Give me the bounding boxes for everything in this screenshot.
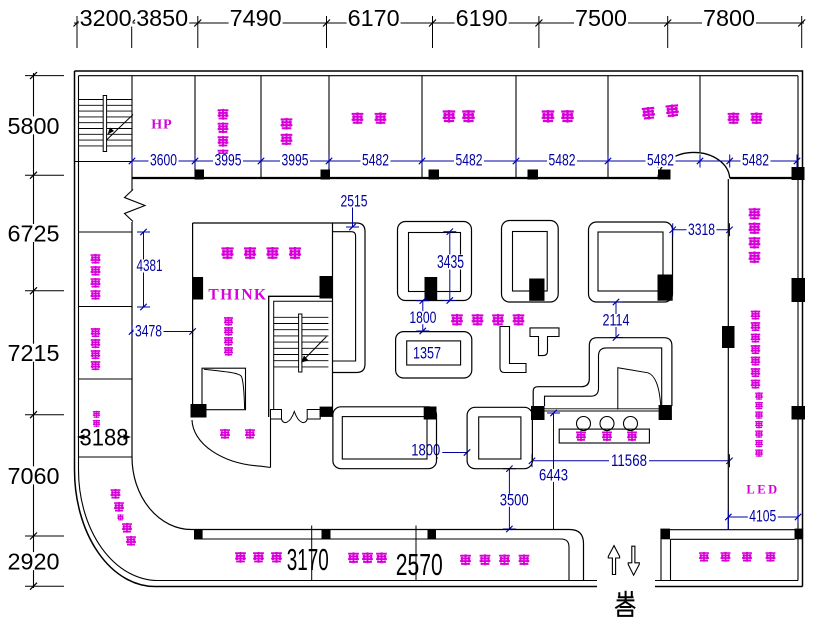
svg-text:LED: LED xyxy=(746,483,779,497)
columns right outer wall xyxy=(792,278,806,420)
dimension 3188 xyxy=(77,425,131,452)
column stepped counter right xyxy=(659,405,672,420)
dimension 3500 xyxy=(498,466,531,533)
stairwell 1 center rail xyxy=(103,96,106,152)
counter C2 xyxy=(502,221,559,303)
lenovo shop top and right band xyxy=(193,223,365,373)
label THINK xyxy=(208,287,267,304)
dimension 4381 xyxy=(136,229,164,310)
shop label BiJiBenPeiJian xyxy=(755,392,763,457)
entrance down arrow xyxy=(628,546,639,575)
svg-text:4381: 4381 xyxy=(137,257,163,275)
exit character Chu xyxy=(617,591,635,601)
svg-text:2920: 2920 xyxy=(8,549,60,575)
counter C1 xyxy=(398,222,472,301)
column lenovo left xyxy=(193,277,204,300)
svg-text:2515: 2515 xyxy=(341,193,368,211)
shop label ShouJiTongXun xyxy=(451,314,524,326)
dimension 1800 row3 xyxy=(409,442,470,460)
bottom shop partitions xyxy=(312,526,416,581)
entrance up arrow xyxy=(608,546,619,575)
svg-text:5482: 5482 xyxy=(549,152,576,170)
svg-text:2114: 2114 xyxy=(603,312,630,330)
dimension 3170 xyxy=(287,542,329,577)
top shops bottom wall xyxy=(132,152,798,178)
shop label FangZheng xyxy=(728,112,763,124)
monitoring shop top band xyxy=(661,530,803,540)
desk symbol cashier xyxy=(618,368,661,410)
right corridor wall xyxy=(727,179,729,529)
svg-text:4105: 4105 xyxy=(749,508,776,526)
counter C3 xyxy=(589,222,673,302)
shop label RuanJian xyxy=(220,429,255,439)
top dimension labels xyxy=(79,5,756,31)
cashier stools xyxy=(577,417,638,431)
column lenovo right xyxy=(320,276,333,299)
svg-text:3995: 3995 xyxy=(215,152,242,170)
svg-text:5482: 5482 xyxy=(647,152,674,170)
svg-text:11568: 11568 xyxy=(611,452,647,470)
counter 1357 xyxy=(396,332,472,378)
dimension 3435 xyxy=(436,229,465,304)
blue dimension labels top shops xyxy=(149,152,771,170)
left corridor wall xyxy=(132,222,192,530)
shop label HuaShuo xyxy=(642,104,680,120)
shop label SheXiangJi xyxy=(348,552,387,563)
stairwell 1 direction arrow xyxy=(107,115,134,141)
svg-text:3435: 3435 xyxy=(437,252,464,272)
cashier counter front lines xyxy=(545,409,659,411)
shop label QingHuaTongFang xyxy=(218,109,229,160)
top dimension ticks xyxy=(74,16,806,48)
columns bottom band xyxy=(194,529,436,540)
shop label JianKongChanPin xyxy=(699,552,775,562)
cashier desk box xyxy=(559,429,649,443)
dimension 2515 xyxy=(338,193,371,231)
column stairwell 2 bottom xyxy=(320,407,333,417)
counter L2 xyxy=(530,328,559,356)
dimension 4105 xyxy=(725,508,801,530)
top dimension line xyxy=(74,22,804,24)
svg-text:7060: 7060 xyxy=(8,463,60,489)
shop label TouYingJi xyxy=(235,552,282,563)
dimension 2570 xyxy=(396,547,443,582)
svg-text:6725: 6725 xyxy=(8,221,60,247)
svg-text:7490: 7490 xyxy=(230,5,282,31)
stairwell 1 treads xyxy=(78,100,132,146)
svg-text:6190: 6190 xyxy=(456,5,508,31)
svg-text:7800: 7800 xyxy=(703,5,755,31)
svg-text:1357: 1357 xyxy=(413,344,441,362)
svg-text:3600: 3600 xyxy=(150,152,177,170)
svg-text:1800: 1800 xyxy=(409,309,436,327)
svg-text:5800: 5800 xyxy=(8,113,60,139)
label ShouYinTai xyxy=(576,431,637,441)
label LED xyxy=(746,483,779,497)
svg-text:2570: 2570 xyxy=(396,547,443,582)
column stepped counter left xyxy=(531,406,545,420)
top shop partitions xyxy=(132,76,700,190)
left strip partitions xyxy=(79,232,133,457)
svg-text:3500: 3500 xyxy=(500,492,529,510)
shop label YingYinYouXi xyxy=(111,489,136,546)
svg-text:7500: 7500 xyxy=(575,5,627,31)
software curved front xyxy=(192,420,271,468)
shop label ShuMaXiangJi xyxy=(460,554,529,565)
dimension 11568 xyxy=(529,452,733,470)
left dimension line xyxy=(33,73,35,588)
svg-text:3318: 3318 xyxy=(688,221,715,239)
stairwell 1 bottom wall xyxy=(75,161,133,163)
dimension 2114 xyxy=(601,299,631,341)
shop label LianXiangJiaYong xyxy=(224,317,233,356)
monitoring shop left wall xyxy=(661,539,671,580)
svg-text:3200: 3200 xyxy=(80,5,132,31)
stairwell 2 treads xyxy=(274,317,329,367)
svg-text:3850: 3850 xyxy=(136,5,188,31)
shop label PingGuo xyxy=(443,110,475,123)
outer wall xyxy=(75,70,803,586)
desk symbol software xyxy=(202,368,246,410)
accordion door left corridor xyxy=(125,190,146,222)
exit character Kou xyxy=(615,602,635,616)
inner wall line xyxy=(79,76,799,581)
stepped counter band xyxy=(533,338,672,407)
svg-text:3995: 3995 xyxy=(282,152,309,170)
svg-text:HP: HP xyxy=(151,118,172,133)
svg-text:5482: 5482 xyxy=(456,152,483,170)
monitoring shop columns xyxy=(660,529,803,540)
svg-text:6443: 6443 xyxy=(539,467,568,485)
shop label BanGongSheBeiJiHaoCai xyxy=(751,310,760,388)
left dimension labels xyxy=(7,113,61,575)
stairwell 2 walls xyxy=(269,296,333,417)
stairwell 2 rail xyxy=(299,314,302,372)
counter L1 xyxy=(500,327,526,373)
dimension 3478 xyxy=(129,323,196,341)
shop label WeiXiuJiGou xyxy=(749,208,761,263)
software right wall xyxy=(270,419,272,468)
shop label DianNaoZhuoYi xyxy=(91,328,100,370)
stairwell 2 door xyxy=(271,410,321,423)
blue dimension line under top shops xyxy=(129,155,800,168)
lenovo shaft wall xyxy=(332,223,334,417)
svg-text:3478: 3478 xyxy=(135,323,162,341)
shop label HongJi xyxy=(542,110,574,123)
svg-text:THINK: THINK xyxy=(208,287,267,304)
structural columns on top wall xyxy=(195,167,805,180)
shop label ShenZhou xyxy=(281,118,293,145)
shop label HP xyxy=(151,118,172,133)
svg-text:7215: 7215 xyxy=(8,340,60,366)
square counter row3 xyxy=(467,407,532,468)
dimension 3318 xyxy=(670,221,733,239)
svg-text:3170: 3170 xyxy=(287,542,329,577)
dimension 6443 xyxy=(538,410,570,529)
shop label LianXiangShangYong xyxy=(221,247,301,259)
left dimension ticks xyxy=(25,72,64,590)
svg-text:5482: 5482 xyxy=(362,152,389,170)
shop label SanXing xyxy=(352,112,387,124)
shop label SanXing vertical xyxy=(93,411,100,427)
svg-text:5482: 5482 xyxy=(742,152,769,170)
rect counter row3 xyxy=(333,407,437,469)
column right corridor wall xyxy=(722,326,735,348)
shop label ZuZhuangDianNao xyxy=(91,254,101,300)
lenovo shop left wall xyxy=(192,223,194,404)
column software xyxy=(191,404,207,418)
stairwell 2 arrow xyxy=(301,337,327,363)
svg-text:3188: 3188 xyxy=(80,425,129,452)
dimension 1800 row1 xyxy=(408,298,438,335)
svg-text:6170: 6170 xyxy=(348,5,400,31)
bottom shops front band xyxy=(192,530,584,581)
